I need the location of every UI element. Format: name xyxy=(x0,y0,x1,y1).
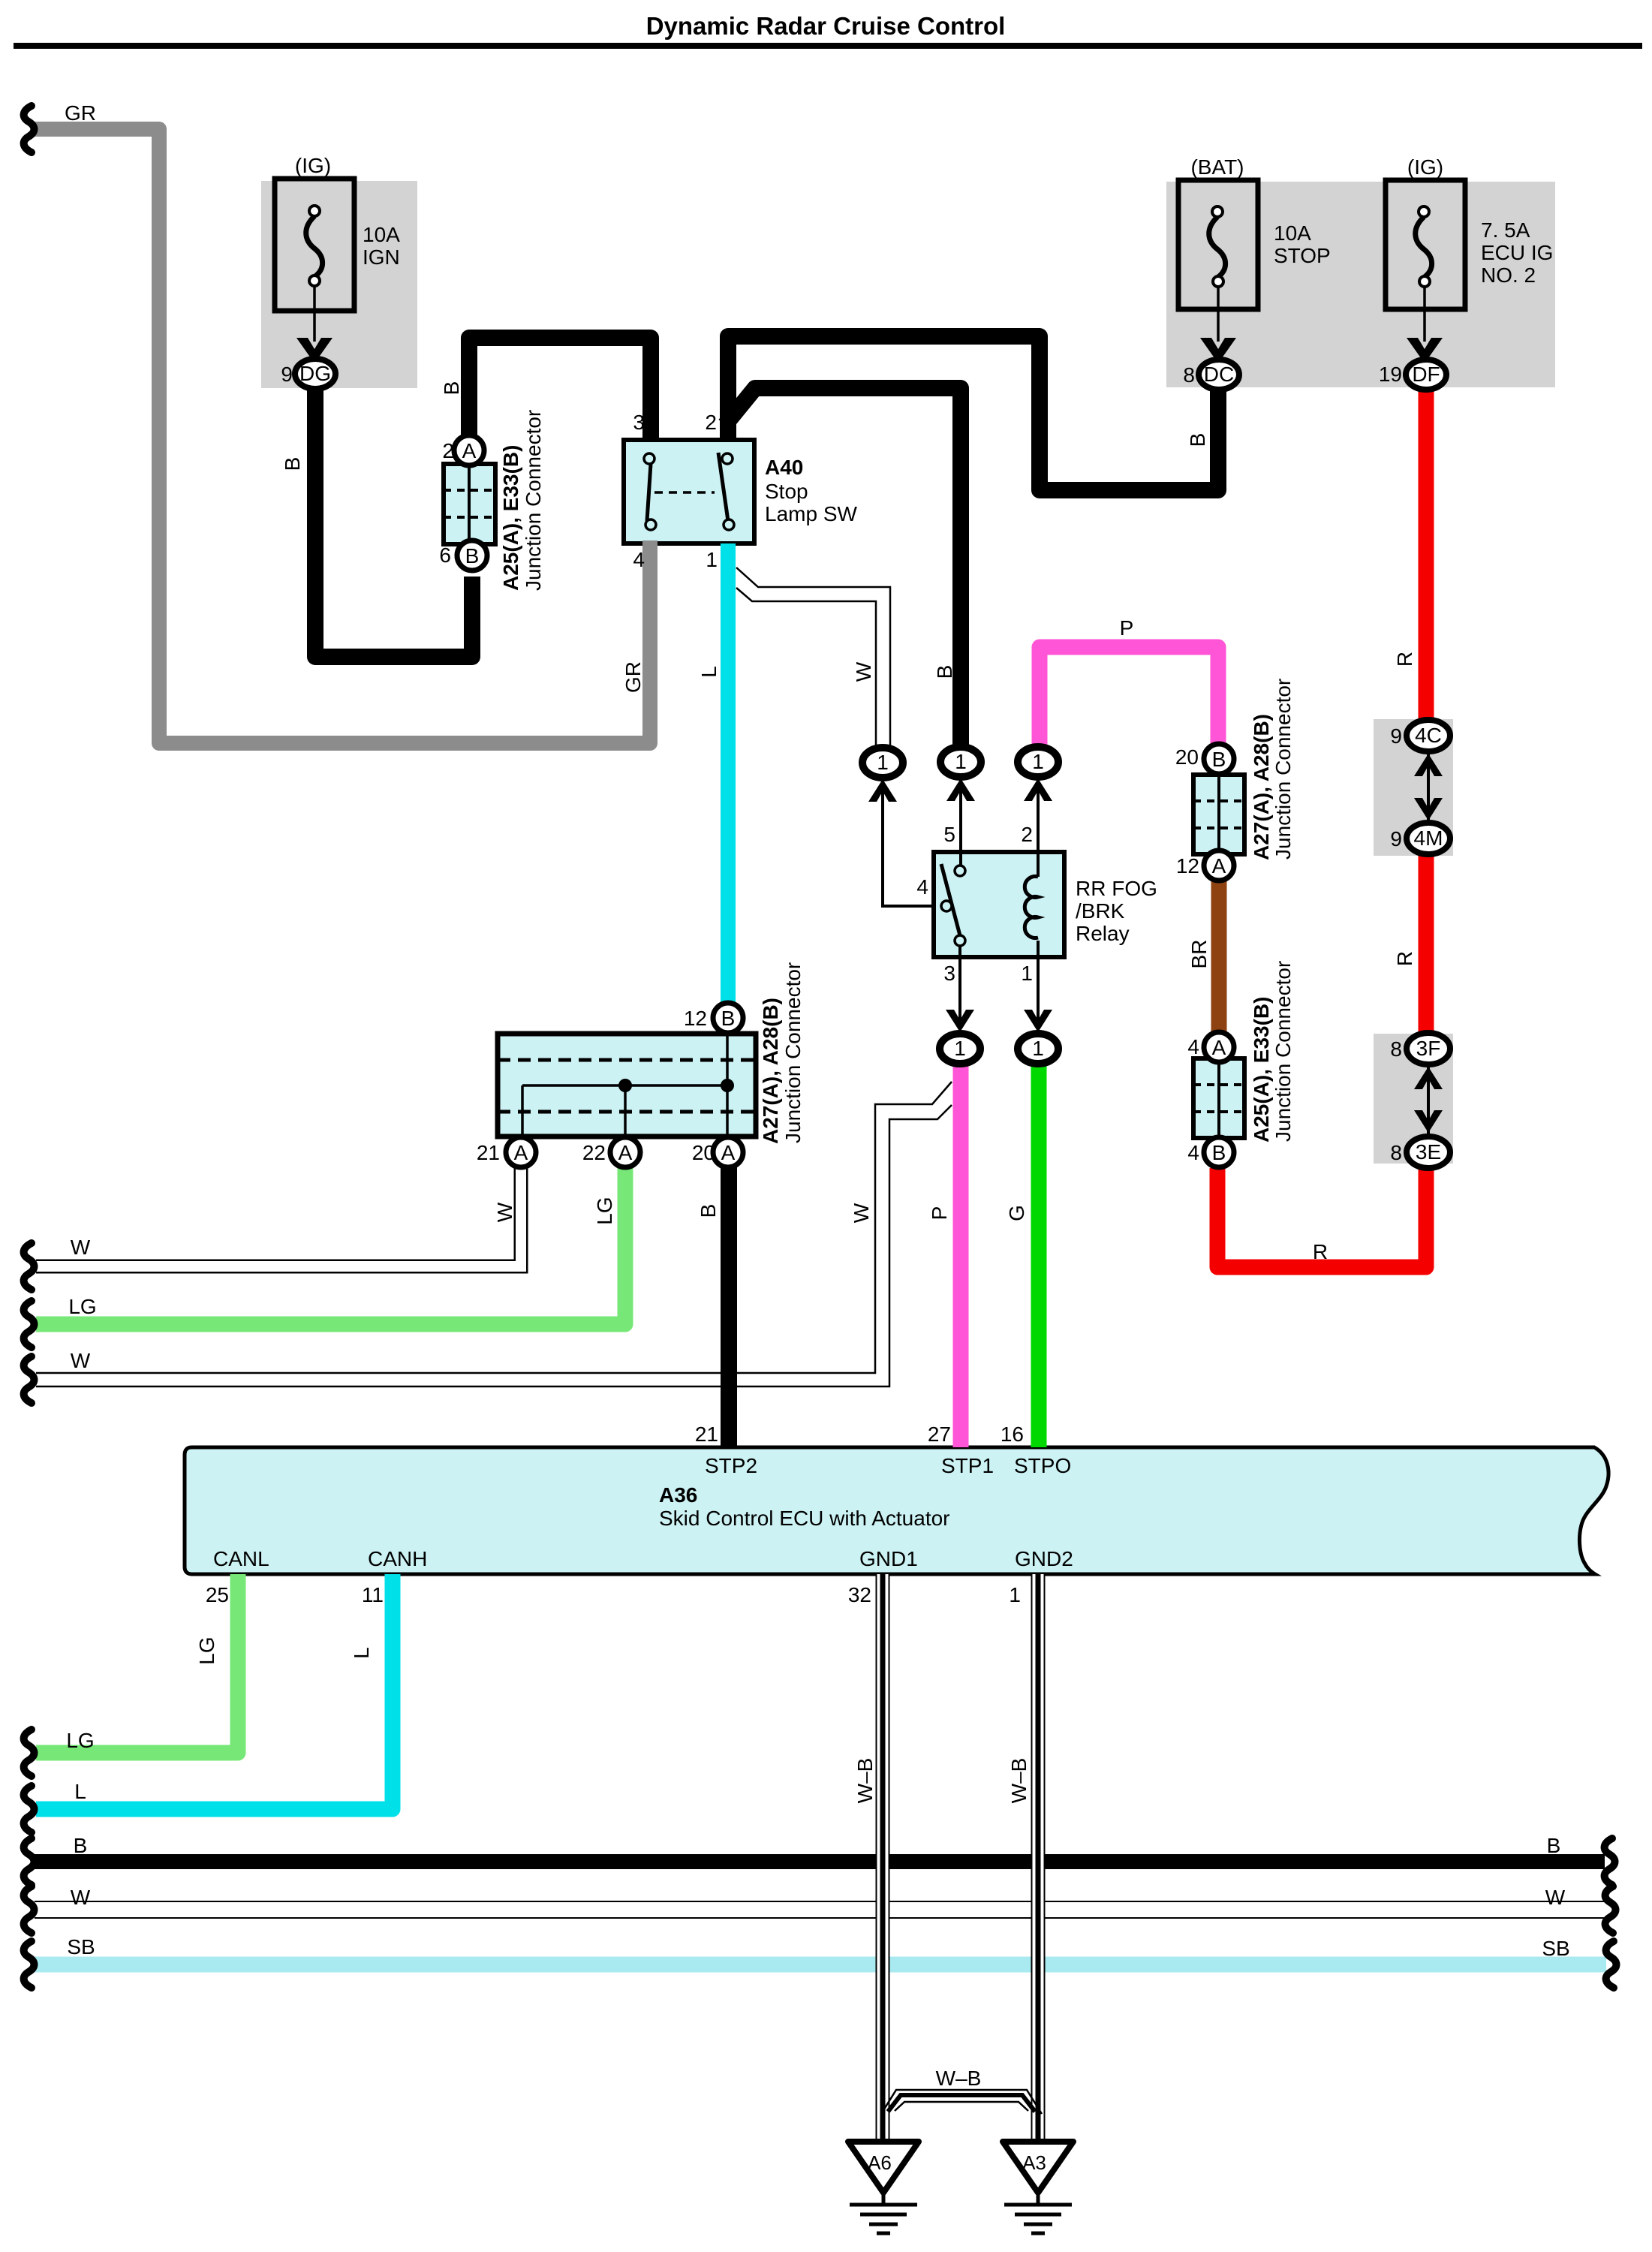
svg-text:W–B: W–B xyxy=(936,2067,982,2090)
svg-text:9: 9 xyxy=(281,363,293,386)
svg-text:(BAT): (BAT) xyxy=(1190,155,1244,179)
svg-text:A6: A6 xyxy=(868,2151,892,2174)
svg-text:LG: LG xyxy=(593,1197,616,1224)
svg-text:1: 1 xyxy=(954,1037,966,1060)
svg-text:STP1: STP1 xyxy=(941,1454,994,1477)
svg-text:GR: GR xyxy=(621,661,645,693)
svg-text:1: 1 xyxy=(706,548,718,571)
svg-text:3F: 3F xyxy=(1416,1037,1441,1060)
svg-text:20: 20 xyxy=(692,1141,715,1164)
svg-text:10A: 10A xyxy=(363,223,400,246)
svg-text:12: 12 xyxy=(684,1007,707,1030)
svg-text:A25(A), E33(B): A25(A), E33(B) xyxy=(499,445,522,591)
svg-text:8: 8 xyxy=(1390,1141,1402,1164)
svg-text:22: 22 xyxy=(582,1141,606,1164)
svg-text:Junction Connector: Junction Connector xyxy=(1271,961,1295,1142)
svg-text:4: 4 xyxy=(633,548,645,571)
svg-text:2: 2 xyxy=(705,411,717,434)
svg-text:A36: A36 xyxy=(659,1483,697,1507)
svg-text:8: 8 xyxy=(1183,363,1195,387)
svg-text:A40: A40 xyxy=(765,456,803,479)
svg-text:A25(A), E33(B): A25(A), E33(B) xyxy=(1250,997,1273,1143)
svg-text:P: P xyxy=(1120,616,1134,640)
svg-text:CANH: CANH xyxy=(368,1547,427,1570)
svg-text:25: 25 xyxy=(206,1583,229,1606)
svg-text:LG: LG xyxy=(66,1729,94,1752)
svg-text:Junction Connector: Junction Connector xyxy=(781,962,805,1143)
svg-text:4: 4 xyxy=(916,875,928,899)
svg-text:1: 1 xyxy=(877,751,889,774)
svg-text:R: R xyxy=(1393,652,1416,667)
svg-text:W: W xyxy=(1545,1886,1566,1909)
svg-text:12: 12 xyxy=(1176,854,1199,878)
svg-text:6: 6 xyxy=(439,543,451,567)
svg-text:7. 5A: 7. 5A xyxy=(1481,218,1530,242)
svg-text:16: 16 xyxy=(1001,1423,1024,1446)
svg-text:SB: SB xyxy=(67,1935,95,1958)
svg-text:1: 1 xyxy=(955,750,967,773)
svg-text:B: B xyxy=(721,1007,736,1030)
svg-text:W: W xyxy=(71,1236,91,1259)
svg-text:4: 4 xyxy=(1187,1035,1199,1058)
svg-text:/BRK: /BRK xyxy=(1076,899,1125,923)
svg-text:W: W xyxy=(493,1202,516,1222)
svg-text:STPO: STPO xyxy=(1014,1454,1071,1477)
svg-text:(IG): (IG) xyxy=(1407,155,1443,179)
svg-text:9: 9 xyxy=(1390,827,1402,851)
svg-text:B: B xyxy=(440,381,463,396)
svg-text:W: W xyxy=(850,1203,873,1223)
svg-text:L: L xyxy=(350,1647,373,1659)
svg-text:DF: DF xyxy=(1412,363,1440,386)
svg-text:(IG): (IG) xyxy=(295,154,331,177)
svg-text:B: B xyxy=(1186,433,1209,447)
svg-text:W: W xyxy=(71,1886,91,1909)
svg-text:L: L xyxy=(697,666,721,678)
svg-text:5: 5 xyxy=(943,823,955,846)
svg-text:B: B xyxy=(281,457,304,471)
svg-text:A: A xyxy=(618,1141,633,1164)
svg-text:R: R xyxy=(1313,1240,1328,1263)
svg-text:P: P xyxy=(928,1206,951,1221)
svg-text:IGN: IGN xyxy=(363,245,400,269)
svg-text:R: R xyxy=(1393,951,1416,966)
svg-text:GND2: GND2 xyxy=(1015,1547,1073,1570)
svg-text:LG: LG xyxy=(68,1295,96,1318)
svg-text:BR: BR xyxy=(1187,940,1211,969)
svg-text:A: A xyxy=(721,1141,736,1164)
svg-text:Junction Connector: Junction Connector xyxy=(522,410,545,591)
svg-text:1: 1 xyxy=(1009,1583,1021,1606)
svg-text:LG: LG xyxy=(195,1636,218,1664)
svg-text:32: 32 xyxy=(848,1583,871,1606)
svg-text:B: B xyxy=(1212,748,1226,771)
svg-text:W: W xyxy=(71,1349,91,1372)
svg-text:20: 20 xyxy=(1175,745,1199,769)
svg-text:11: 11 xyxy=(362,1583,384,1606)
svg-text:27: 27 xyxy=(928,1423,951,1446)
svg-text:SB: SB xyxy=(1542,1937,1569,1960)
svg-text:Junction Connector: Junction Connector xyxy=(1271,679,1295,860)
svg-text:A: A xyxy=(1212,1036,1226,1059)
svg-text:8: 8 xyxy=(1390,1037,1402,1061)
svg-text:B: B xyxy=(74,1834,88,1857)
svg-text:1: 1 xyxy=(1032,750,1044,773)
svg-text:RR FOG: RR FOG xyxy=(1076,877,1157,900)
svg-text:L: L xyxy=(74,1780,86,1803)
svg-text:Skid Control ECU with Actuator: Skid Control ECU with Actuator xyxy=(659,1507,950,1530)
svg-text:DC: DC xyxy=(1204,363,1234,386)
svg-text:A27(A), A28(B): A27(A), A28(B) xyxy=(1250,714,1273,860)
svg-text:21: 21 xyxy=(477,1141,500,1164)
svg-text:GR: GR xyxy=(65,101,96,125)
svg-text:4M: 4M xyxy=(1414,826,1443,850)
svg-text:B: B xyxy=(1212,1141,1226,1164)
svg-text:A: A xyxy=(462,439,477,462)
svg-text:STP2: STP2 xyxy=(705,1454,757,1477)
svg-text:B: B xyxy=(465,544,480,568)
svg-text:G: G xyxy=(1005,1205,1028,1221)
svg-text:3: 3 xyxy=(943,962,955,985)
svg-text:W–B: W–B xyxy=(853,1758,877,1804)
svg-text:Lamp SW: Lamp SW xyxy=(765,502,857,525)
svg-text:CANL: CANL xyxy=(213,1547,269,1570)
svg-text:10A: 10A xyxy=(1274,221,1311,245)
svg-text:ECU IG: ECU IG xyxy=(1481,241,1553,264)
svg-text:21: 21 xyxy=(695,1423,718,1446)
svg-text:2: 2 xyxy=(442,439,454,462)
svg-text:A: A xyxy=(514,1141,528,1164)
svg-text:2: 2 xyxy=(1021,823,1033,846)
svg-text:9: 9 xyxy=(1390,724,1402,748)
svg-text:B: B xyxy=(697,1204,720,1218)
svg-text:W: W xyxy=(852,661,875,682)
svg-text:1: 1 xyxy=(1032,1037,1044,1060)
svg-text:3: 3 xyxy=(633,411,645,434)
svg-text:W–B: W–B xyxy=(1007,1758,1031,1804)
svg-text:1: 1 xyxy=(1021,962,1033,985)
svg-text:STOP: STOP xyxy=(1274,244,1331,267)
svg-text:B: B xyxy=(933,665,956,679)
svg-text:NO. 2: NO. 2 xyxy=(1481,263,1536,287)
svg-text:Stop: Stop xyxy=(765,480,808,503)
svg-text:4: 4 xyxy=(1187,1141,1199,1164)
svg-text:A: A xyxy=(1212,854,1226,878)
svg-text:Dynamic Radar Cruise Control: Dynamic Radar Cruise Control xyxy=(646,12,1006,40)
svg-text:B: B xyxy=(1547,1834,1561,1857)
svg-text:A3: A3 xyxy=(1022,2151,1046,2174)
svg-text:4C: 4C xyxy=(1415,724,1442,747)
svg-text:GND1: GND1 xyxy=(859,1547,918,1570)
svg-text:3E: 3E xyxy=(1416,1140,1441,1164)
svg-text:19: 19 xyxy=(1379,363,1402,386)
svg-text:A27(A), A28(B): A27(A), A28(B) xyxy=(759,998,782,1144)
svg-text:DG: DG xyxy=(299,362,331,385)
svg-text:Relay: Relay xyxy=(1076,922,1130,945)
